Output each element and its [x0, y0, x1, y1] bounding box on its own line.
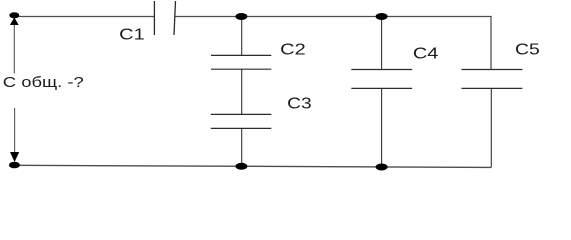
svg-text:С общ. -?: С общ. -?: [3, 74, 84, 91]
svg-text:C1: C1: [119, 26, 145, 43]
svg-text:C3: C3: [287, 95, 312, 112]
svg-text:C4: C4: [413, 46, 439, 63]
svg-text:C2: C2: [280, 41, 306, 58]
svg-text:C5: C5: [515, 42, 540, 59]
